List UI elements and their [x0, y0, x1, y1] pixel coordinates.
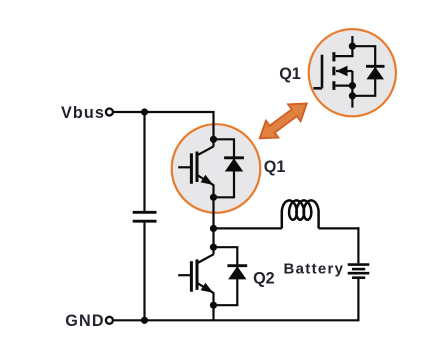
- body diode of Q1 MOSFET: [366, 66, 385, 79]
- wire MOSFET body-diode branch: [352, 46, 375, 96]
- node capacitor-GND junction: [141, 317, 148, 324]
- battery BT1: [348, 265, 370, 278]
- svg-text:Q2: Q2: [253, 270, 275, 288]
- IGBT Q1 collector lead: [198, 139, 213, 154]
- MOSFET drain contact: [334, 46, 353, 56]
- zoom arrow (double-headed): [260, 104, 307, 139]
- svg-text:GND: GND: [65, 312, 105, 330]
- label Battery: [284, 261, 345, 278]
- node Q1 collector junction: [210, 136, 217, 143]
- MOSFET channel top segment: [332, 52, 335, 61]
- IGBT Q2 collector lead: [198, 247, 213, 262]
- wire Vbus to Q1 collector: [212, 112, 214, 139]
- wire Q1 freewheel-diode branch: [214, 139, 235, 197]
- IGBT Q2 gate lead: [178, 274, 191, 276]
- IGBT Q1 gate bar: [190, 153, 193, 184]
- node MOSFET drain junction: [349, 43, 356, 50]
- MOSFET gate electrode: [313, 55, 322, 89]
- IGBT Q1 emitter arrow: [198, 175, 214, 198]
- Vbus terminal: [106, 109, 113, 116]
- Vbus net label: [61, 104, 105, 122]
- wire switch node to inductor: [214, 227, 282, 229]
- node Vbus-capacitor junction: [141, 108, 148, 115]
- diode D-Q2 (anti-parallel): [227, 266, 247, 280]
- MOSFET channel middle segment: [332, 67, 335, 76]
- GND net label: [65, 312, 105, 330]
- wire GND rail: [114, 319, 360, 321]
- MOSFET source contact: [334, 84, 353, 86]
- wire Q2 freewheel-diode branch: [214, 247, 238, 305]
- node switch-node junction: [210, 225, 217, 232]
- node MOSFET source contact junction: [349, 82, 356, 89]
- label Q1 (IGBT): [264, 158, 286, 176]
- label Q2: [253, 270, 275, 288]
- IGBT Q2 body bar: [196, 259, 199, 290]
- MOSFET drain lead: [351, 36, 353, 46]
- node MOSFET source-diode junction: [349, 92, 356, 99]
- capacitor C1: [133, 212, 157, 221]
- IGBT Q2 emitter arrow: [198, 283, 214, 306]
- node Q2 emitter junction: [210, 302, 217, 309]
- MOSFET channel bottom segment: [332, 81, 335, 90]
- svg-text:Battery: Battery: [284, 261, 345, 278]
- svg-text:Q1: Q1: [279, 65, 301, 83]
- wire switch node to Q2 collector: [212, 228, 214, 247]
- highlight circle Q1 MOSFET zoom: [309, 29, 396, 116]
- node Q2 collector junction: [210, 244, 217, 251]
- node Q1 emitter junction: [210, 194, 217, 201]
- GND terminal: [106, 317, 113, 324]
- MOSFET source lead: [351, 86, 353, 108]
- highlight circle around Q1: [172, 124, 261, 213]
- wire Q1 emitter to switch node: [212, 197, 214, 228]
- svg-text:Vbus: Vbus: [61, 104, 105, 122]
- diode D-Q1 (anti-parallel): [224, 158, 244, 172]
- wire inductor to battery: [319, 227, 360, 229]
- label Q1 (MOSFET zoom): [279, 65, 301, 83]
- IGBT Q1 gate lead: [178, 166, 191, 168]
- IGBT Q1 body bar: [196, 152, 199, 183]
- MOSFET body arrow: [336, 66, 352, 86]
- wire capacitor lower branch: [143, 223, 145, 321]
- wire Q2 emitter to GND: [212, 306, 214, 320]
- wire battery top lead: [357, 227, 359, 263]
- inductor L1: [282, 200, 319, 228]
- wire battery bottom lead: [357, 279, 359, 320]
- wire capacitor upper branch: [143, 112, 145, 211]
- IGBT Q2 gate bar: [190, 261, 193, 292]
- svg-text:Q1: Q1: [264, 158, 286, 176]
- wire Vbus rail: [114, 111, 215, 113]
